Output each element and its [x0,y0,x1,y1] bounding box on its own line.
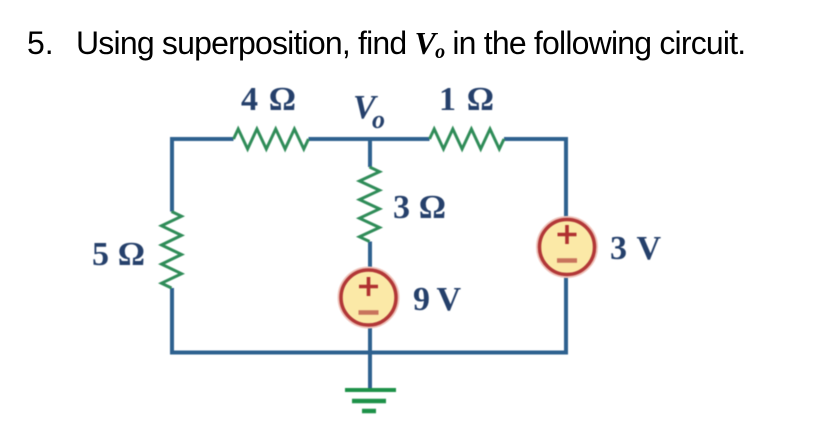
wire left vertical upper [170,137,174,212]
wire middle between resistor and source [368,242,372,271]
svg-text:o: o [372,105,385,134]
resistor R 4ohm zigzag [234,129,309,149]
voltage source 9V body [341,270,396,325]
svg-text:9 V: 9 V [413,281,461,318]
svg-text:5 Ω: 5 Ω [92,236,145,273]
title text [0,0,832,1]
9V minus sign [359,310,379,315]
ground bar 1 [345,388,396,392]
voltage source 3V halo [538,218,597,277]
wire bottom horizontal [170,351,568,355]
wire right vertical lower [564,275,568,355]
3V plus sign [558,225,577,244]
svg-text:3 V: 3 V [610,230,661,267]
resistor R 3ohm zigzag (vertical, middle branch) [360,167,380,242]
resistor R 1ohm zigzag [430,129,505,149]
9V plus sign [359,277,378,296]
wire middle vertical upper [368,139,372,167]
svg-text:3 Ω: 3 Ω [393,189,446,226]
wire top-middle horizontal [309,137,430,141]
svg-text:4 Ω: 4 Ω [241,81,296,118]
resistor R 5ohm zigzag (vertical, on left wire) [162,212,182,289]
wire right vertical upper [564,137,568,219]
3V minus sign [557,258,577,263]
wire middle below source to ground [368,325,372,389]
svg-text:1 Ω: 1 Ω [439,81,494,118]
wire top-left horizontal [170,137,234,141]
ground bar 3 [362,409,376,414]
wire top-right horizontal [504,137,568,141]
voltage source 3V body [540,220,595,275]
wire left vertical lower [170,288,174,355]
ground bar 2 [352,399,386,404]
voltage source 9V halo [339,268,398,327]
